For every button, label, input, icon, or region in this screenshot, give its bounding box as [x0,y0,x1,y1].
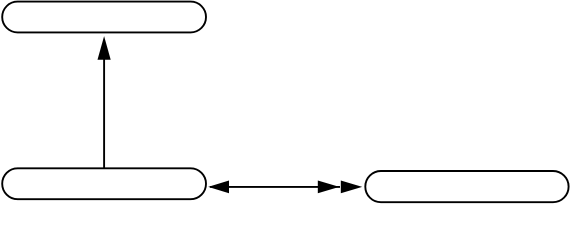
box bottom-left (rounded terminator) [2,168,206,199]
arrowhead up at top-left box [98,36,111,60]
arrowhead right first (tandem) [318,181,340,194]
arrowhead left at bottom-left box [208,181,229,194]
box bottom-right (rounded terminator) [365,171,568,202]
wire vertical from bottom-left box to top-left box [103,45,105,168]
wire horizontal between bottom-left box and bottom-right box [210,186,340,188]
arrowhead right second at bottom-right box [341,181,362,194]
box top-left (rounded terminator) [2,2,206,33]
